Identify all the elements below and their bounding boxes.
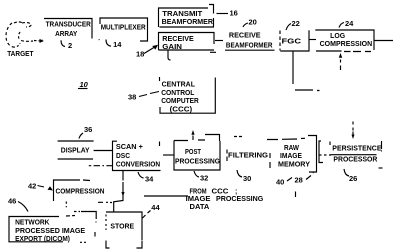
svg-text:MULTIPLEXER: MULTIPLEXER — [101, 25, 146, 32]
svg-text:PROCESSOR: PROCESSOR — [333, 157, 377, 164]
svg-text:PROCESSING: PROCESSING — [175, 158, 221, 165]
svg-text:PROCESSED IMAGE: PROCESSED IMAGE — [15, 228, 85, 235]
box: persistence processor (degraded) — [319, 141, 383, 168]
svg-text:16: 16 — [230, 9, 238, 18]
dashed arrow down into persistence processor — [352, 122, 355, 140]
figure numeral 10 (underlined) — [78, 80, 89, 89]
svg-text:RECEIVE: RECEIVE — [162, 36, 194, 43]
ref numeral 28 with leader — [295, 173, 314, 185]
dash-dot wire into scan converter — [89, 165, 112, 167]
svg-text:RECEIVE: RECEIVE — [229, 33, 261, 40]
box: compression (degraded) — [54, 180, 105, 201]
svg-text:46: 46 — [8, 197, 16, 206]
svg-text:24: 24 — [345, 19, 354, 28]
svg-text:40: 40 — [276, 178, 284, 187]
target sketch (dashed blob) — [6, 22, 43, 47]
ref numeral 20 with leader — [243, 18, 257, 28]
svg-text:CONTROL: CONTROL — [161, 90, 195, 97]
ref numeral 24 with leader — [339, 19, 354, 28]
svg-text:DSC: DSC — [116, 153, 130, 160]
svg-text:COMPRESSION: COMPRESSION — [56, 189, 105, 196]
wire: from-ccc pointer line — [144, 195, 188, 197]
svg-text:22: 22 — [292, 19, 300, 28]
box: transmit beamformer — [159, 5, 215, 28]
svg-text:10: 10 — [80, 80, 89, 89]
box: raw image memory — [267, 136, 317, 173]
ref numeral 38 with leader — [128, 92, 159, 102]
wire: scan converter to post processing — [163, 154, 174, 156]
ref numeral 22 with leader — [286, 19, 300, 30]
label: receive beamformer (degraded box) — [210, 33, 275, 53]
svg-text:COMPRESSION: COMPRESSION — [320, 41, 373, 48]
svg-text:PERSISTENCE: PERSISTENCE — [332, 145, 382, 152]
wire: display to scan converter — [94, 150, 112, 152]
svg-text:14: 14 — [113, 40, 122, 49]
ref numeral 2 with leader — [61, 40, 72, 50]
svg-text:IMAGE: IMAGE — [280, 153, 302, 160]
ref numeral 42 with leader — [28, 182, 53, 191]
wire: receive gain down — [168, 50, 171, 60]
ref numeral 34 with leader — [138, 172, 154, 184]
label: from ccc image processing data — [186, 188, 264, 211]
svg-text:CCC: CCC — [212, 188, 229, 195]
svg-text:RAW: RAW — [284, 145, 299, 152]
svg-text:42: 42 — [28, 182, 36, 191]
svg-text:TRANSDUCER: TRANSDUCER — [46, 21, 91, 28]
box: scan + dsc conversion — [113, 141, 161, 170]
svg-text:NETWORK: NETWORK — [15, 220, 49, 227]
box: network processed image export (dicom) — [9, 216, 95, 244]
svg-text:DISPLAY: DISPLAY — [61, 148, 90, 155]
wire: log compression to right — [374, 40, 393, 42]
dashes below compression — [65, 202, 67, 208]
svg-text:IMAGE: IMAGE — [186, 196, 211, 203]
svg-text:(CCC): (CCC) — [170, 107, 193, 114]
svg-text:LOG: LOG — [330, 33, 346, 40]
svg-text:POST: POST — [185, 149, 202, 156]
svg-text:TARGET: TARGET — [7, 51, 34, 58]
svg-text:FGC: FGC — [282, 38, 302, 45]
svg-text:STORE: STORE — [110, 224, 134, 231]
svg-text:38: 38 — [128, 93, 136, 102]
svg-text:DATA: DATA — [190, 204, 210, 211]
box: log compression — [315, 30, 374, 52]
box: store — [106, 212, 142, 248]
ref numeral 36 with leader — [79, 125, 92, 139]
ref numeral 16 with leader — [217, 9, 238, 18]
box: transducer array — [42, 19, 92, 41]
ref numeral 18 with arrow — [136, 45, 158, 59]
box: receive gain — [159, 33, 215, 51]
ref numeral 30 with leader — [237, 170, 251, 183]
svg-text:36: 36 — [84, 125, 92, 134]
dash-dot wire: compression area to store drop — [98, 201, 112, 203]
svg-text:MEMORY: MEMORY — [278, 162, 310, 169]
svg-text:20: 20 — [249, 18, 257, 27]
svg-text:32: 32 — [200, 174, 208, 183]
dash below raw image memory — [295, 192, 297, 198]
svg-text:34: 34 — [145, 175, 154, 184]
ref numeral 26 with leader — [344, 169, 357, 183]
svg-text:CONVERSION: CONVERSION — [116, 162, 160, 169]
box: display — [58, 141, 94, 159]
ref numeral 32 with leader — [194, 171, 208, 183]
dash-dot wire: raw image memory to persistence — [319, 154, 331, 156]
svg-text:CENTRAL: CENTRAL — [162, 82, 196, 89]
svg-text:COMPUTER: COMPUTER — [161, 98, 199, 105]
svg-text:BEAMFORMER: BEAMFORMER — [162, 19, 213, 26]
svg-text:GAIN: GAIN — [162, 44, 182, 51]
dashed arrow up into log compression — [339, 53, 342, 70]
dash-dot wire with corner near network box — [74, 212, 96, 223]
svg-text:30: 30 — [243, 174, 251, 183]
box: central control computer (CCC) — [160, 77, 216, 114]
box: filtering (degraded) — [227, 137, 269, 162]
svg-text:2: 2 — [68, 41, 72, 50]
wire: fgc to log compression — [309, 39, 316, 41]
ref numeral 14 with leader — [106, 40, 122, 50]
svg-text:44: 44 — [151, 203, 160, 212]
box: multiplexer — [99, 18, 148, 41]
ref numeral 46 with leader — [8, 197, 28, 212]
svg-text:BEAMFORMER: BEAMFORMER — [226, 43, 273, 50]
svg-text:ARRAY: ARRAY — [55, 31, 78, 38]
svg-text:SCAN +: SCAN + — [116, 144, 143, 151]
wire: fgc down — [293, 51, 320, 91]
box: FGC — [280, 30, 309, 51]
ref numeral 40 with leader — [276, 178, 292, 187]
svg-text:TRANSMIT: TRANSMIT — [162, 11, 203, 18]
svg-text:26: 26 — [349, 174, 357, 183]
svg-text:FROM: FROM — [190, 188, 207, 195]
svg-text:FILTERING: FILTERING — [228, 153, 269, 160]
svg-text:EXPORT (DICOM): EXPORT (DICOM) — [15, 236, 70, 243]
ref numeral 44 with leader — [143, 203, 161, 218]
box: post processing — [174, 135, 221, 171]
wire: scan converter down to store (with arrow) — [114, 171, 125, 212]
dashed arrow up from post processing — [191, 130, 194, 140]
svg-text:18: 18 — [136, 50, 144, 59]
svg-text:28: 28 — [295, 176, 303, 185]
svg-text:;: ; — [235, 188, 237, 195]
svg-text:PROCESSING: PROCESSING — [216, 196, 264, 203]
